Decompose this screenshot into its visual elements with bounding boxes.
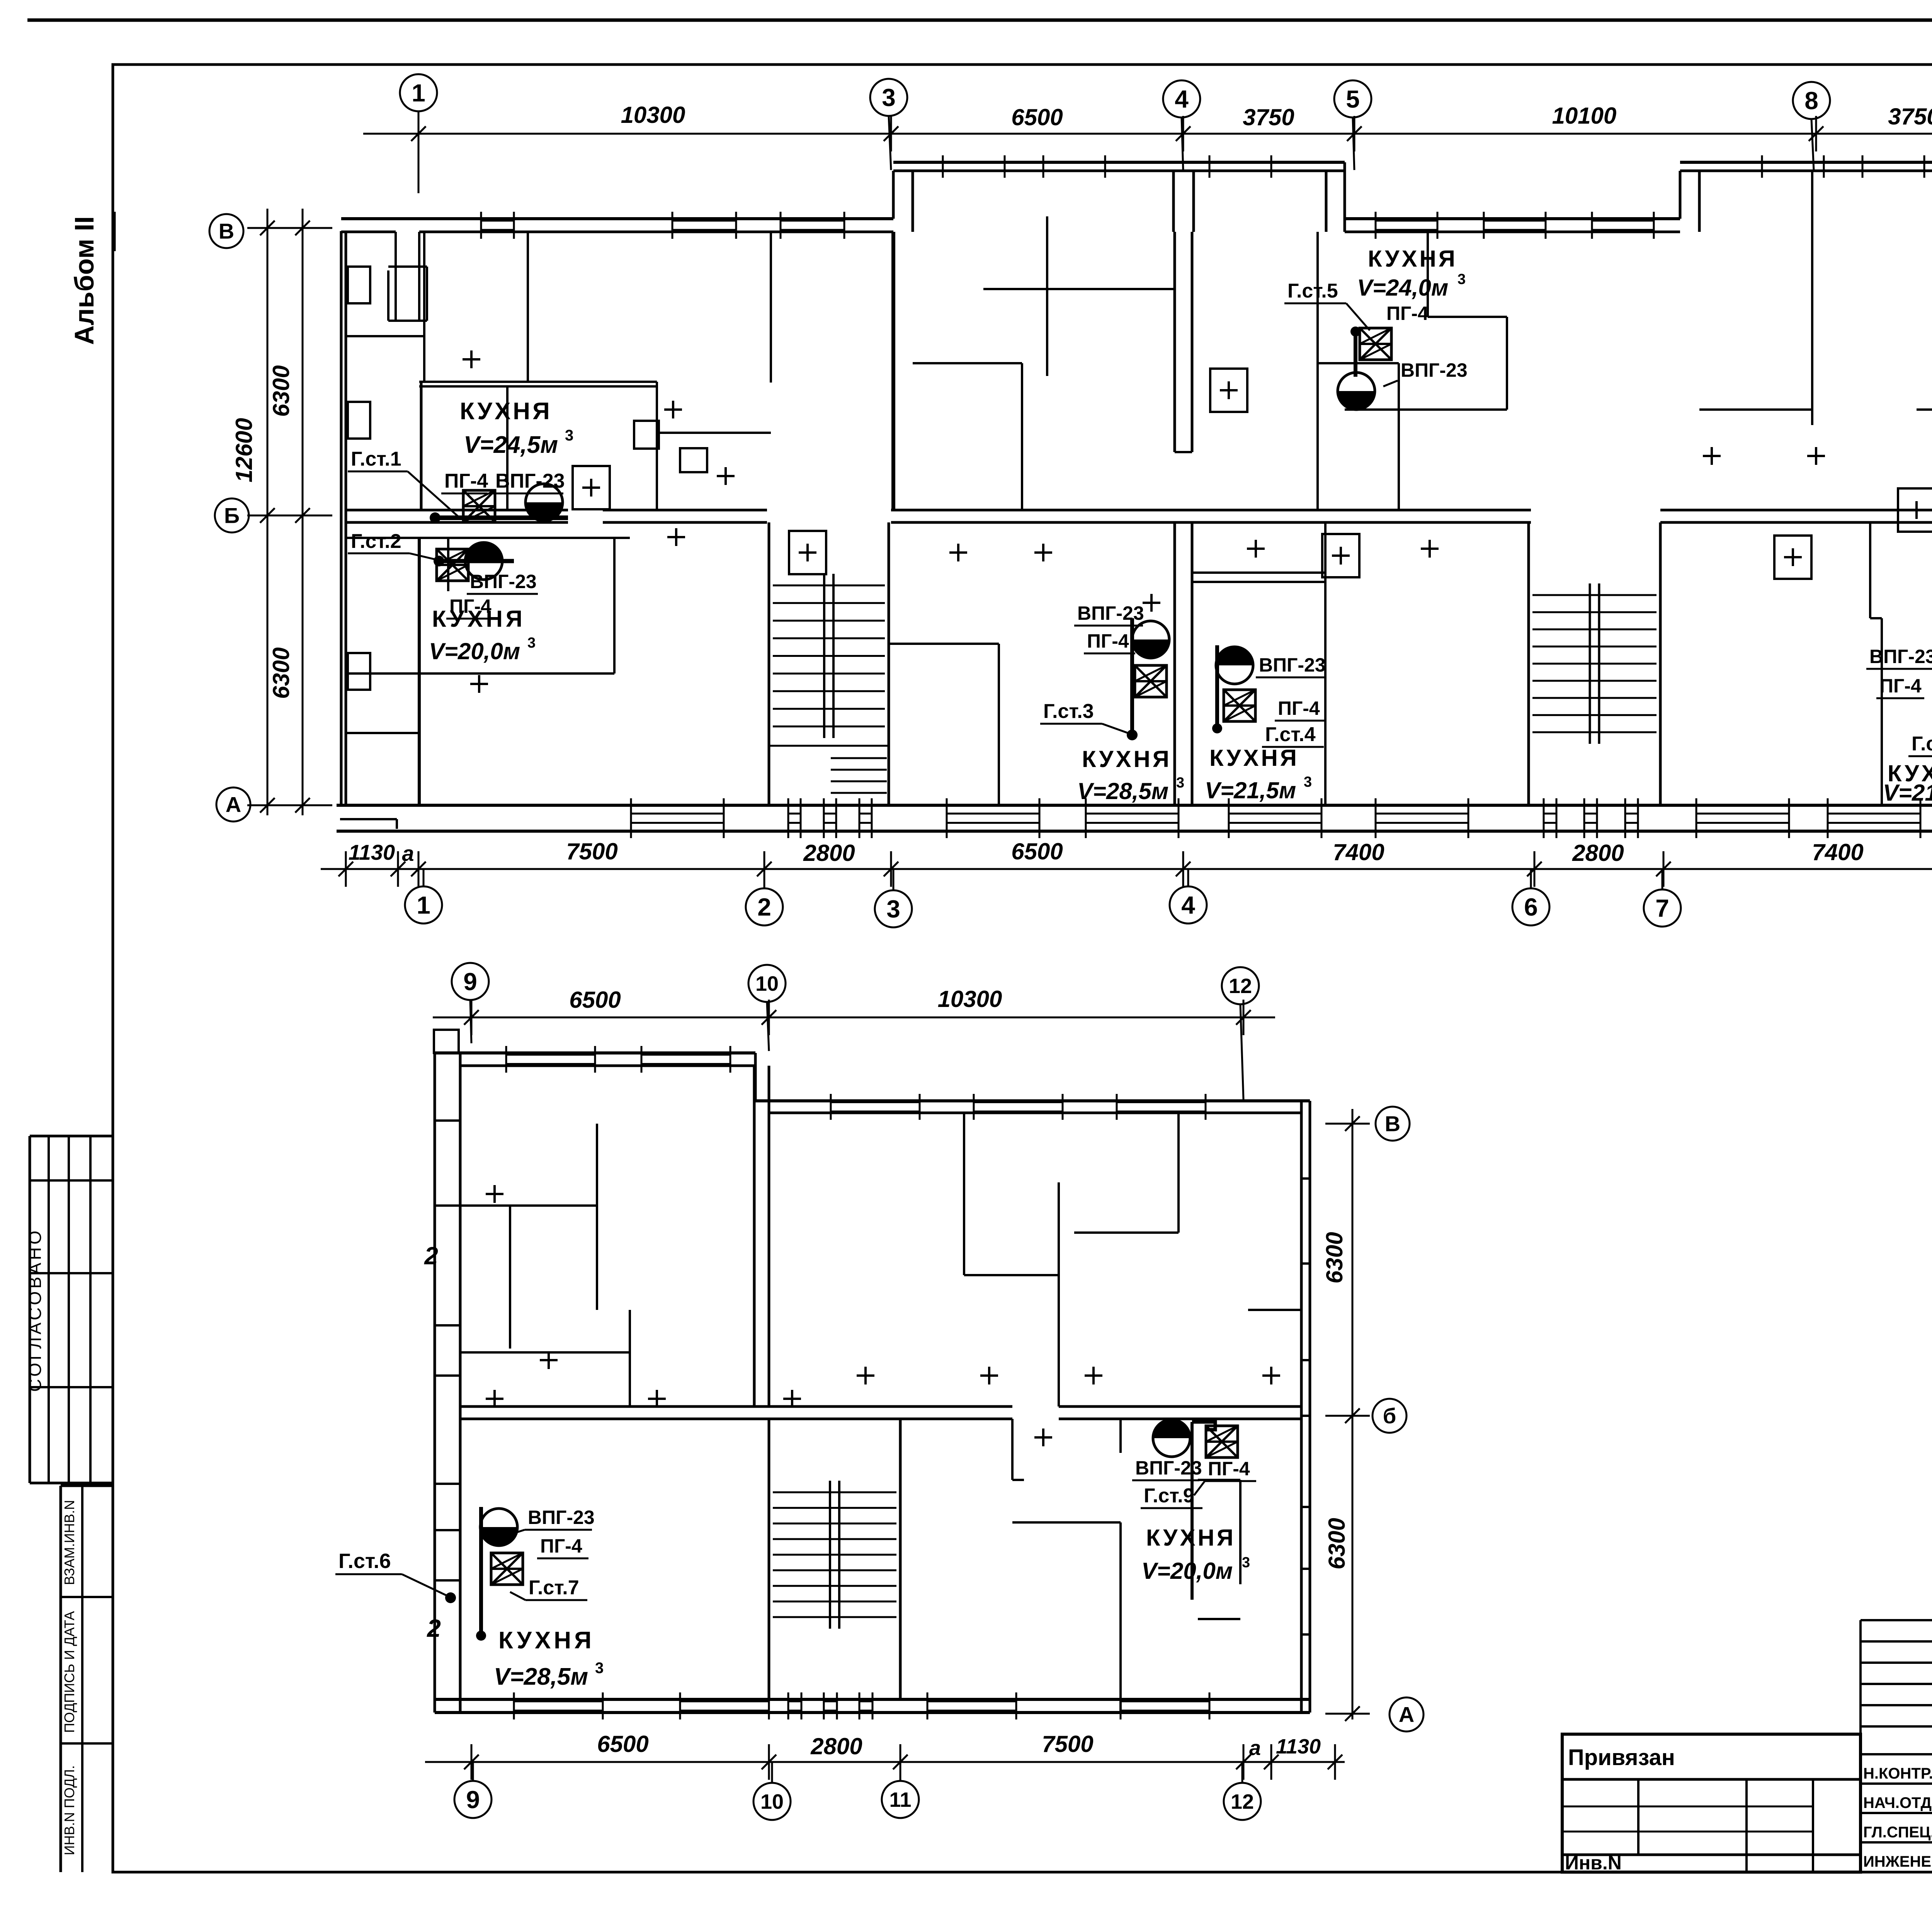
svg-text:ВПГ-23: ВПГ-23 <box>1259 654 1326 676</box>
kitchen5 lower walls <box>1345 408 1507 411</box>
svg-text:Г.ст.4: Г.ст.4 <box>1265 723 1316 746</box>
svg-text:КУХНЯ: КУХНЯ <box>432 606 526 632</box>
hall partition below protrusion <box>983 288 1175 290</box>
kitchen4 gas symbols <box>1216 647 1253 684</box>
staircase 1 lower landing <box>769 745 889 747</box>
hall partition under kitchen1 <box>346 537 630 539</box>
svg-text:12: 12 <box>1229 975 1252 998</box>
bottom plan top wall left section <box>435 1051 755 1054</box>
svg-text:Б: Б <box>224 503 240 528</box>
svg-text:7500: 7500 <box>1042 1731 1093 1757</box>
svg-text:Альбом II: Альбом II <box>69 216 99 345</box>
axis circle A <box>216 787 250 821</box>
bathroom walls left flat <box>657 432 771 434</box>
staircase 1 entrance steps <box>831 757 887 759</box>
svg-text:2: 2 <box>424 1242 438 1270</box>
axis circle A bottom plan <box>1389 1697 1423 1731</box>
svg-text:В: В <box>219 219 234 243</box>
sheet outer top border line <box>27 19 1932 22</box>
step between sections <box>754 1053 757 1101</box>
svg-text:3: 3 <box>565 427 573 444</box>
svg-text:1130: 1130 <box>349 840 395 864</box>
svg-text:1130: 1130 <box>1276 1735 1321 1758</box>
svg-text:Г.ст.1: Г.ст.1 <box>351 448 401 470</box>
bottom plan right wall <box>1300 1101 1303 1713</box>
kitchen3 left partitions <box>888 643 999 645</box>
svg-text:КУХНЯ: КУХНЯ <box>460 398 552 425</box>
svg-text:6500: 6500 <box>1011 104 1063 130</box>
svg-text:ВПГ-23: ВПГ-23 <box>470 571 537 592</box>
svg-text:ВЗАМ.ИНВ.N: ВЗАМ.ИНВ.N <box>61 1500 77 1585</box>
svg-text:7400: 7400 <box>1333 839 1384 865</box>
soglasovano stamp table <box>30 1135 113 1138</box>
bottom plan outer walls: left wall <box>434 1053 436 1713</box>
vent shaft box right of kitchen1 <box>634 421 659 449</box>
svg-text:Г.ст.5: Г.ст.5 <box>1287 280 1338 302</box>
bottom plan bottom wall <box>435 1698 1310 1701</box>
protrusion wall axes 3-5 <box>892 171 895 219</box>
svg-text:ПГ-4: ПГ-4 <box>1087 630 1129 652</box>
svg-text:ВПГ-23: ВПГ-23 <box>1077 602 1144 624</box>
axis8 partition upper <box>1811 171 1813 425</box>
svg-text:6500: 6500 <box>1011 838 1063 864</box>
kitchen2 left wall on axis 1 <box>418 538 421 805</box>
svg-text:Г.ст.2: Г.ст.2 <box>351 530 401 553</box>
kitchen6 walls <box>1869 522 1871 618</box>
svg-text:7500: 7500 <box>566 838 617 864</box>
bottom plan top dimension line <box>433 1017 1275 1019</box>
bottom wall step lines at entrance <box>340 818 397 820</box>
upper partition x3620 <box>1398 363 1400 510</box>
small plus marks bottom plan <box>486 1398 503 1400</box>
kitchen5 gas symbols <box>1360 328 1391 360</box>
kitchen1 left wall <box>420 382 423 510</box>
small room divider left flat <box>346 335 424 337</box>
svg-text:11: 11 <box>889 1788 911 1811</box>
small windows under staircase 2 <box>1543 798 1545 838</box>
axis circle V bottom plan <box>1376 1107 1410 1141</box>
svg-text:3750: 3750 <box>1243 104 1294 130</box>
svg-text:Г.ст.6: Г.ст.6 <box>338 1549 391 1573</box>
svg-text:a: a <box>1249 1736 1261 1760</box>
bottom plan right dimension line <box>1352 1109 1354 1719</box>
bottom plan interior right flat <box>963 1113 965 1275</box>
svg-text:V=20,0м: V=20,0м <box>429 638 520 664</box>
privyazan sub table <box>1562 1854 1861 1856</box>
svg-text:Н.КОНТР.: Н.КОНТР. <box>1863 1765 1932 1782</box>
svg-text:3: 3 <box>1304 774 1312 790</box>
svg-text:ИНВ.N ПОДЛ.: ИНВ.N ПОДЛ. <box>61 1765 77 1855</box>
svg-text:10100: 10100 <box>1552 103 1617 129</box>
svg-text:1: 1 <box>412 79 425 107</box>
bottom plan middle wall <box>460 1405 1012 1408</box>
svg-text:ПГ-4: ПГ-4 <box>444 470 488 492</box>
svg-text:б: б <box>1383 1404 1396 1428</box>
svg-text:СОГЛАСОВАНО: СОГЛАСОВАНО <box>25 1228 45 1392</box>
svg-text:6300: 6300 <box>1324 1518 1350 1569</box>
bottom plan kitchen7 gas symbols <box>480 1509 517 1546</box>
bottom plan top axis circles <box>452 963 489 1000</box>
svg-text:3: 3 <box>886 895 900 923</box>
svg-text:ВПГ-23: ВПГ-23 <box>1135 1457 1202 1479</box>
axis circle b bottom plan <box>1372 1399 1406 1433</box>
svg-text:8: 8 <box>1804 87 1818 114</box>
top plan: axis grid dimension line (top) <box>363 133 1932 135</box>
kitchen2 gas symbols <box>437 549 468 581</box>
left wall cross bars <box>435 1119 460 1122</box>
svg-text:10300: 10300 <box>938 986 1002 1012</box>
top axis circles <box>400 74 437 111</box>
svg-text:a: a <box>402 841 414 866</box>
svg-text:6300: 6300 <box>1321 1232 1347 1283</box>
svg-text:3: 3 <box>1458 271 1466 287</box>
bottom axis circles of top plan <box>405 886 442 923</box>
svg-text:2800: 2800 <box>810 1733 862 1759</box>
svg-text:2: 2 <box>427 1614 441 1642</box>
bottom plan kitchen8 gas symbols <box>1153 1420 1190 1457</box>
svg-text:ВПГ-23: ВПГ-23 <box>528 1507 595 1528</box>
top plan bottom dimension line <box>321 868 1932 870</box>
axis circle V <box>209 214 243 248</box>
svg-text:В: В <box>1385 1112 1400 1136</box>
svg-text:1: 1 <box>417 891 430 919</box>
svg-text:V=24,5м: V=24,5м <box>464 432 558 458</box>
kitchen 24.5 top wall <box>419 381 657 383</box>
svg-text:КУХНЯ: КУХНЯ <box>1368 246 1458 272</box>
kitchen2 walls <box>346 672 614 675</box>
svg-text:V=28,5м: V=28,5м <box>1077 778 1168 804</box>
top plan: left vertical dimension lines <box>267 209 269 815</box>
svg-text:V=24,0м: V=24,0м <box>1357 275 1448 301</box>
small windows under staircase 1 <box>787 798 789 838</box>
rooms right section partitions <box>1699 408 1812 411</box>
bottom plan interior partitions left flat <box>596 1124 598 1310</box>
svg-text:9: 9 <box>466 1786 480 1813</box>
title block staff grid <box>1861 1619 1932 1621</box>
axis circle B <box>215 498 249 532</box>
left attribute strip table <box>61 1485 113 1487</box>
svg-text:7400: 7400 <box>1812 839 1863 865</box>
svg-text:КУХНЯ: КУХНЯ <box>1082 746 1172 772</box>
svg-text:7: 7 <box>1655 894 1669 922</box>
svg-text:Г.ст.9: Г.ст.9 <box>1144 1485 1194 1507</box>
axis4 interior wall <box>1173 232 1176 452</box>
svg-text:ВПГ-23: ВПГ-23 <box>1401 359 1468 381</box>
svg-text:Г.ст.7: Г.ст.7 <box>529 1577 579 1599</box>
svg-text:6: 6 <box>1524 893 1538 921</box>
svg-text:6500: 6500 <box>597 1731 648 1757</box>
partition mid room left <box>506 386 509 510</box>
left wall attached niches <box>348 267 370 303</box>
interior partition right of vestibule <box>423 232 425 382</box>
svg-text:3750: 3750 <box>1888 104 1932 129</box>
svg-text:ПГ-4: ПГ-4 <box>1208 1458 1250 1480</box>
small plus marks top plan <box>463 358 480 361</box>
staircase 2 between axes 6 and 7 <box>1527 522 1530 805</box>
svg-text:6300: 6300 <box>268 365 294 417</box>
svg-text:НАЧ.ОТД.: НАЧ.ОТД. <box>1863 1794 1932 1811</box>
svg-text:3: 3 <box>1242 1554 1250 1571</box>
svg-text:А: А <box>1399 1702 1414 1727</box>
svg-text:10300: 10300 <box>621 102 685 128</box>
boxed plus fixtures top plan <box>573 466 610 509</box>
bottom wall windows <box>630 798 632 838</box>
privyazan box <box>1562 1734 1861 1872</box>
svg-text:ПГ-4: ПГ-4 <box>1879 675 1922 697</box>
bottom plan top wall right section <box>755 1099 1310 1102</box>
bottom wall windows <box>513 1692 515 1719</box>
svg-text:12600: 12600 <box>231 418 257 483</box>
partition axis2 upper <box>770 232 772 383</box>
protrusion A windows <box>942 155 944 178</box>
top wall windows left section <box>480 212 482 239</box>
svg-text:6300: 6300 <box>268 647 294 699</box>
svg-text:ИНЖЕНЕР: ИНЖЕНЕР <box>1863 1853 1932 1870</box>
kitchen4 top wall <box>1192 571 1326 574</box>
top wall between axes 5 and 8 <box>1345 217 1680 220</box>
protrusion wall axes 8-9 <box>1679 171 1682 219</box>
corner niche top-left of bottom plan <box>434 1030 459 1053</box>
entry vestibule at left top wall <box>395 232 397 321</box>
kitchen1 gas pipe <box>433 515 568 520</box>
top plan top wall (axis V) left section <box>341 217 893 220</box>
svg-text:V=21,5м: V=21,5м <box>1883 780 1932 806</box>
bottom plan partition axis10 upper <box>753 1066 756 1406</box>
axis3 upper partition <box>891 232 895 510</box>
svg-text:3: 3 <box>595 1660 604 1677</box>
svg-text:2800: 2800 <box>803 840 855 866</box>
svg-text:ГЛ.СПЕЦ.: ГЛ.СПЕЦ. <box>1863 1824 1932 1841</box>
svg-text:КУХНЯ: КУХНЯ <box>1209 745 1299 771</box>
svg-text:2800: 2800 <box>1572 840 1624 866</box>
svg-text:9: 9 <box>463 968 477 995</box>
bottom plan kitchen8 walls <box>1011 1419 1014 1480</box>
svg-text:3: 3 <box>1176 775 1184 791</box>
svg-text:10: 10 <box>760 1790 784 1813</box>
svg-text:2: 2 <box>757 893 771 921</box>
svg-text:4: 4 <box>1175 85 1189 113</box>
top plan bottom wall (axis A) <box>337 804 1932 807</box>
svg-text:Г.ст.3: Г.ст.3 <box>1043 700 1094 723</box>
svg-text:12: 12 <box>1231 1790 1254 1813</box>
svg-text:КУХНЯ: КУХНЯ <box>498 1627 595 1654</box>
svg-text:ПОДПИСЬ И ДАТА: ПОДПИСЬ И ДАТА <box>61 1611 77 1733</box>
svg-text:V=20,0м: V=20,0м <box>1141 1558 1233 1584</box>
upper partition x2645 <box>1021 363 1023 510</box>
svg-text:3: 3 <box>882 83 896 111</box>
kitchen1 gas stove symbol <box>463 490 495 522</box>
axis4 wall below mid <box>1173 522 1176 805</box>
svg-text:5: 5 <box>1346 85 1360 113</box>
partition kitchen5 vertical <box>1427 232 1429 317</box>
svg-text:6500: 6500 <box>569 987 621 1013</box>
top plan middle wall (axis B) <box>346 509 568 512</box>
svg-text:V=21,5м: V=21,5м <box>1205 777 1296 803</box>
bottom plan bottom axis circles <box>454 1781 492 1818</box>
svg-text:Инв.N: Инв.N <box>1565 1852 1622 1874</box>
staircase 1 between axes 2 and 3 <box>768 522 770 805</box>
room partition below B wall left <box>346 732 419 734</box>
svg-text:Г.ст.6: Г.ст.6 <box>1912 733 1932 755</box>
svg-text:ПГ-4: ПГ-4 <box>540 1535 582 1557</box>
svg-text:ПГ-4: ПГ-4 <box>1386 303 1429 324</box>
svg-text:3: 3 <box>527 635 536 651</box>
bottom plan staircase <box>768 1419 770 1699</box>
svg-text:V=28,5м: V=28,5м <box>494 1663 588 1690</box>
svg-text:10: 10 <box>755 972 779 995</box>
svg-text:ПГ-4: ПГ-4 <box>1278 697 1320 719</box>
svg-text:КУХНЯ: КУХНЯ <box>1146 1525 1236 1551</box>
top plan outer walls: left wall <box>340 231 343 805</box>
kitchen3 gas symbols <box>1132 621 1169 658</box>
bottom plan bottom dimension line <box>425 1761 1345 1763</box>
partition x1360 upper room <box>527 232 529 382</box>
kitchen1 gas heater symbol <box>526 484 563 521</box>
svg-text:4: 4 <box>1181 891 1195 919</box>
partition right of axis4 room <box>1316 232 1319 510</box>
svg-text:А: А <box>226 793 241 817</box>
svg-text:ВПГ-23: ВПГ-23 <box>1869 646 1932 667</box>
svg-text:Привязан: Привязан <box>1568 1745 1675 1770</box>
kitchen3/4 separating walls <box>998 644 1000 805</box>
kitchen4 right wall <box>1324 522 1327 805</box>
